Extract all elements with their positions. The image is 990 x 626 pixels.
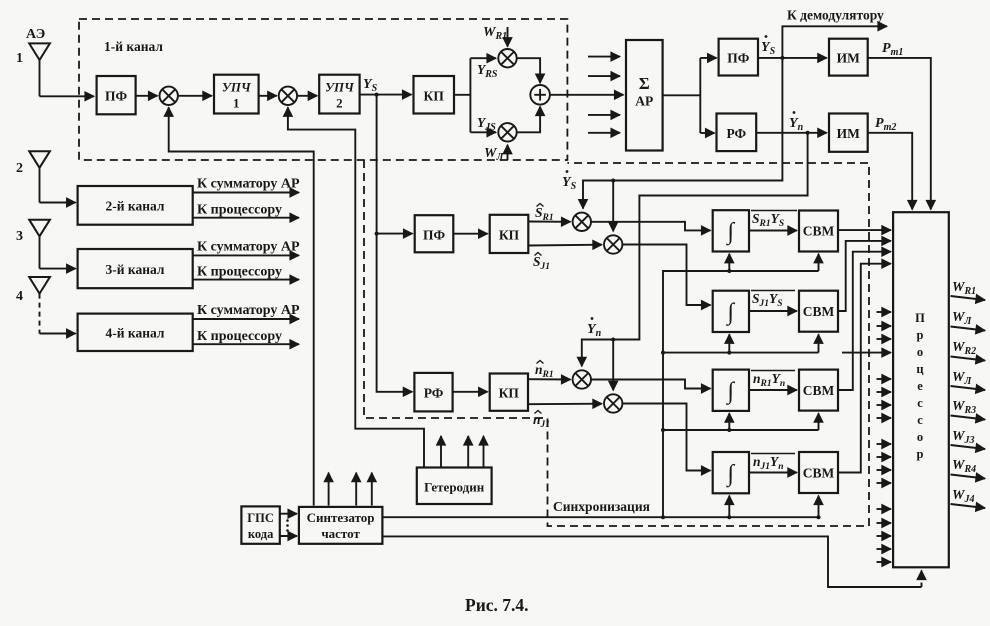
svg-text:РФ: РФ: [424, 386, 444, 401]
svg-text:WЛ: WЛ: [952, 370, 972, 387]
sync arrows into integrator4 and СВМ4 bottoms: [727, 496, 820, 520]
svg-text:ИМ: ИМ: [837, 126, 861, 141]
wire РФ middle to КП bottom: [453, 391, 488, 393]
svg-text:УПЧ: УПЧ: [325, 80, 355, 95]
block ИМ1: [829, 39, 868, 76]
antenna АЭ label: [26, 27, 45, 42]
block КП channel1: [414, 76, 455, 114]
svg-text:WR3: WR3: [952, 399, 976, 416]
svg-text:SJ1: SJ1: [533, 254, 550, 272]
label К процессору ch3: [197, 265, 282, 280]
svg-text:∫: ∫: [726, 219, 736, 246]
sync bus vertical with row branches: [661, 271, 819, 519]
wire СВМ3 to processor: [838, 252, 891, 390]
svg-text:∫: ∫: [726, 379, 736, 406]
svg-text:YS: YS: [363, 77, 378, 94]
integrator 1: [713, 210, 749, 251]
integrator 2: [713, 291, 749, 332]
svg-text:YS: YS: [562, 175, 577, 192]
label Ŷ S top: [761, 35, 776, 57]
wire ch3 to processor: [193, 279, 299, 281]
svg-text:АР: АР: [635, 94, 653, 109]
wire Ŷ S distribution to mixers A and B: [583, 58, 782, 231]
label n J1 hat: [533, 411, 550, 431]
mixer D: [604, 394, 622, 412]
wire mixer D to integrator 4: [622, 404, 710, 471]
svg-text:YRS: YRS: [477, 62, 498, 80]
label nJ1Yn overline: [751, 454, 795, 473]
svg-text:4: 4: [16, 289, 23, 304]
svg-text:ПФ: ПФ: [105, 89, 128, 104]
svg-text:∫: ∫: [726, 461, 736, 488]
svg-text:ГПС: ГПС: [247, 511, 274, 525]
integrator 4: [713, 452, 749, 493]
filter РФ middle: [414, 373, 452, 412]
label WR4 output: [951, 458, 986, 479]
svg-text:WR1: WR1: [952, 280, 976, 297]
label WR3 output: [951, 399, 986, 420]
label WR1 output: [951, 280, 986, 300]
label К сумматору АР ch3: [197, 240, 300, 255]
heterodyne up arrow 2: [467, 436, 469, 467]
wire mixer C to integrator 3: [591, 380, 711, 389]
wire ch2 to summator: [193, 192, 299, 194]
label WЛ1: [484, 145, 508, 163]
wire ch3 to summator: [193, 254, 299, 256]
svg-text:SR1: SR1: [535, 205, 554, 223]
svg-text:SJ1YS: SJ1YS: [752, 291, 783, 309]
mixer weight WR1: [498, 49, 516, 67]
block Синтезатор частот: [299, 507, 383, 544]
mixer C: [573, 370, 591, 388]
label К сумматору АР ch4: [197, 303, 300, 318]
svg-text:Синтезатор: Синтезатор: [307, 510, 375, 525]
block ИМ2: [829, 114, 868, 152]
svg-text:К сумматору АР: К сумматору АР: [197, 240, 300, 255]
svg-text:2: 2: [336, 96, 343, 111]
wire ПФ to mixer1: [136, 95, 158, 97]
block СВМ1: [799, 211, 838, 252]
wire КП bottom to mixer C: [528, 378, 571, 380]
wire mixer2 to УПЧ2: [297, 95, 317, 97]
svg-text:WJ4: WJ4: [952, 488, 974, 505]
wire ИМ2 to processor top: [868, 133, 913, 210]
block 2-й канал: [78, 186, 193, 225]
svg-text:4-й канал: 4-й канал: [106, 326, 165, 341]
label WJ4 output: [951, 488, 986, 508]
label Pm1: [882, 41, 903, 58]
label К демодулятору: [787, 8, 884, 23]
svg-text:СВМ: СВМ: [803, 224, 835, 239]
svg-text:YS: YS: [761, 40, 776, 57]
sync arrows into integrator3 and СВМ3 bottoms: [727, 413, 818, 432]
svg-text:К демодулятору: К демодулятору: [787, 8, 884, 23]
wire input stub 1 to summator: [588, 56, 620, 58]
svg-text:YJS: YJS: [477, 115, 496, 133]
svg-text:1: 1: [16, 51, 23, 66]
label Ŷ S middle: [562, 170, 577, 192]
label SJ1 hat: [533, 253, 550, 273]
antenna 2: [16, 151, 50, 202]
svg-text:Синхронизация: Синхронизация: [553, 499, 650, 514]
node YS label: [363, 77, 378, 94]
adder: [530, 85, 550, 105]
wire integrator1 to СВМ1: [749, 230, 797, 232]
block КП bottom: [490, 374, 528, 411]
block 4-й канал: [78, 314, 193, 351]
filter ПФ channel1: [97, 76, 136, 114]
wire input stub 4 to summator: [588, 132, 620, 134]
svg-text:КП: КП: [424, 89, 445, 104]
wires ГПС to Синтезатор with dots: [280, 514, 297, 536]
wire adder to summator АР: [550, 94, 624, 96]
wire СВМ4 to processor: [838, 264, 891, 473]
feedback wire mixer2 from heterodyne: [288, 107, 424, 467]
svg-text:СВМ: СВМ: [803, 304, 835, 319]
amplifier УПЧ2: [319, 75, 359, 114]
wire ch4 to processor: [193, 343, 299, 345]
svg-text:SR1YS: SR1YS: [752, 211, 784, 229]
integrator 3: [713, 370, 749, 411]
label Ŷ n middle: [587, 317, 602, 339]
dashed box correlator section: [364, 160, 869, 526]
heterodyne up arrow 1: [440, 436, 442, 467]
antenna 4: [16, 277, 50, 334]
processor left input stubs group 1: [842, 312, 891, 353]
wire УПЧ2 to КП with junction: [360, 93, 412, 97]
block 3-й канал: [78, 249, 193, 288]
svg-text:nR1: nR1: [535, 362, 554, 380]
svg-text:Процессор: Процессор: [915, 311, 925, 461]
label WJ3 output: [951, 429, 986, 449]
wire УПЧ1 to mixer2: [259, 95, 277, 97]
processor left input stubs group 3: [877, 444, 891, 483]
dashed box 1-й канал: [79, 19, 567, 160]
sync arrows into integrator1 and СВМ1 bottoms: [727, 254, 818, 273]
wire antenna3 to channel3: [40, 268, 76, 270]
svg-text:ИМ: ИМ: [837, 51, 861, 66]
svg-text:1: 1: [233, 96, 240, 111]
svg-text:∫: ∫: [726, 300, 736, 327]
mixer M2: [279, 87, 297, 105]
wire РФ to ИМ2 with junction Yn: [756, 131, 827, 135]
svg-text:СВМ: СВМ: [803, 383, 835, 398]
svg-text:РФ: РФ: [726, 126, 746, 141]
wire mixer A to integrator 1: [591, 222, 711, 231]
filter РФ top right: [717, 114, 757, 152]
svg-text:Yn: Yn: [587, 322, 602, 339]
svg-text:WR4: WR4: [952, 458, 976, 475]
wire ch4 to summator: [193, 318, 299, 320]
caption Рис. 7.4.: [465, 595, 529, 615]
wire integrator2 to СВМ2: [749, 310, 797, 312]
wire КП to mixer A: [528, 221, 570, 223]
mixer B: [604, 235, 622, 253]
svg-text:КП: КП: [499, 386, 520, 401]
antenna 3: [16, 220, 50, 269]
sync arrows into integrator2 and СВМ2 bottoms: [727, 334, 818, 354]
label WJ2 output: [951, 370, 986, 390]
label Ŷ n top: [789, 111, 804, 133]
wire antenna2 to channel2: [40, 202, 76, 204]
svg-text:Гетеродин: Гетеродин: [424, 480, 485, 495]
label К процессору ch2: [197, 203, 282, 218]
svg-text:Σ: Σ: [639, 74, 650, 93]
synthesizer up arrow 3: [371, 473, 373, 506]
wire input stub 2 to summator: [588, 75, 620, 77]
filter ПФ middle: [415, 215, 454, 252]
svg-text:Pm1: Pm1: [882, 41, 903, 58]
svg-text:2-й канал: 2-й канал: [106, 199, 165, 214]
label Синхронизация: [553, 499, 650, 514]
block КП middle: [490, 215, 529, 253]
processor left input stubs group 2: [877, 379, 891, 418]
svg-text:WЛ: WЛ: [484, 146, 504, 163]
antenna 1: [16, 43, 50, 96]
label WR1: [483, 25, 508, 47]
wire mixer WR1 to adder: [517, 58, 540, 83]
heterodyne up arrow 3: [483, 436, 485, 467]
svg-text:2: 2: [16, 161, 23, 176]
svg-text:WR1: WR1: [483, 25, 507, 42]
mixer weight WЛ: [498, 123, 516, 141]
wire mixer WЛ to adder: [517, 107, 540, 133]
synthesizer up arrow 1: [328, 473, 330, 506]
svg-text:Рис. 7.4.: Рис. 7.4.: [465, 595, 529, 615]
label SR1 hat: [535, 204, 554, 224]
sync wire from synthesizer: [382, 516, 818, 518]
svg-text:КП: КП: [499, 228, 520, 243]
block ГПС кода: [241, 506, 279, 543]
label Pm2: [875, 116, 896, 133]
wire input stub 3 to summator: [588, 114, 620, 116]
svg-text:К сумматору АР: К сумматору АР: [197, 303, 300, 318]
wire integrator3 to СВМ3: [749, 389, 797, 391]
svg-text:К процессору: К процессору: [197, 265, 282, 280]
wire КП bottom to mixer D: [528, 403, 602, 406]
wire ch2 to processor: [193, 217, 299, 219]
synthesizer up arrow 2: [355, 473, 357, 506]
processor left input stubs group 4: [877, 509, 891, 562]
svg-text:ПФ: ПФ: [727, 51, 750, 66]
wire КП to mixer B: [528, 244, 602, 247]
node YRS label: [477, 62, 498, 80]
svg-text:ПФ: ПФ: [423, 228, 446, 243]
wire antenna1 to ПФ: [40, 95, 95, 97]
svg-text:nR1Yn: nR1Yn: [753, 371, 785, 389]
wire КП split to quadrature mixers: [454, 58, 496, 132]
svg-text:WJ3: WJ3: [952, 429, 974, 446]
svg-text:К процессору: К процессору: [197, 203, 282, 218]
svg-text:УПЧ: УПЧ: [222, 80, 252, 95]
processor box: [893, 212, 949, 567]
label nR1Yn overline: [751, 371, 795, 390]
svg-text:3-й канал: 3-й канал: [106, 262, 165, 277]
wire ПФ to ИМ1 with junction YS: [758, 56, 827, 60]
node YJS label: [477, 115, 496, 133]
wire summator split to ПФ and РФ: [663, 58, 717, 133]
wire antenna4 to channel4: [40, 333, 76, 335]
svg-text:1-й канал: 1-й канал: [104, 39, 163, 54]
wire YS tap vertical to ПФ and РФ middle: [375, 95, 413, 392]
wire mixer1 to УПЧ1: [178, 95, 212, 97]
label WR2 output: [951, 340, 986, 361]
wire synthesizer to processor bottom: [382, 536, 921, 587]
label WJ1 output: [951, 310, 986, 331]
svg-text:WR2: WR2: [952, 340, 976, 357]
svg-text:Pm2: Pm2: [875, 116, 896, 133]
svg-text:К процессору: К процессору: [197, 329, 282, 344]
svg-text:WЛ: WЛ: [952, 310, 972, 327]
label К процессору ch4: [197, 329, 282, 344]
wire СВМ2 to processor: [838, 241, 891, 311]
summator Σ АР: [626, 40, 663, 151]
svg-text:кода: кода: [248, 527, 274, 541]
block СВМ4: [799, 452, 838, 493]
label SJ1YS overline: [751, 291, 795, 310]
svg-text:АЭ: АЭ: [26, 27, 45, 42]
filter ПФ top right: [719, 39, 758, 76]
svg-text:СВМ: СВМ: [803, 466, 835, 481]
wire mixer B to integrator 2: [622, 245, 710, 306]
label SR1YS overline: [751, 211, 797, 230]
mixer A: [573, 213, 591, 231]
label n R1 hat: [535, 361, 554, 381]
svg-text:частот: частот: [321, 526, 360, 541]
mixer M1: [160, 87, 178, 105]
amplifier УПЧ1: [214, 75, 259, 114]
block Гетеродин: [417, 468, 492, 505]
svg-text:Yn: Yn: [789, 116, 804, 133]
wire Ŷ n distribution to mixers C and D: [582, 133, 808, 391]
wire ПФ middle to КП: [453, 233, 487, 235]
block СВМ2: [799, 291, 838, 332]
feedback wire mixer1 from synthesizer bus: [169, 107, 314, 505]
wire к демодулятору: [782, 26, 887, 58]
block СВМ3: [799, 370, 838, 411]
svg-text:nJ1Yn: nJ1Yn: [753, 454, 784, 472]
label К сумматору АР ch2: [197, 177, 300, 192]
svg-text:3: 3: [16, 229, 23, 244]
svg-text:К сумматору АР: К сумматору АР: [197, 177, 300, 192]
wire ИМ1 to processor top: [868, 58, 931, 210]
svg-text:nJ1: nJ1: [533, 412, 550, 430]
wire СВМ1 to processor: [838, 229, 891, 231]
wire integrator4 to СВМ4: [749, 472, 797, 474]
